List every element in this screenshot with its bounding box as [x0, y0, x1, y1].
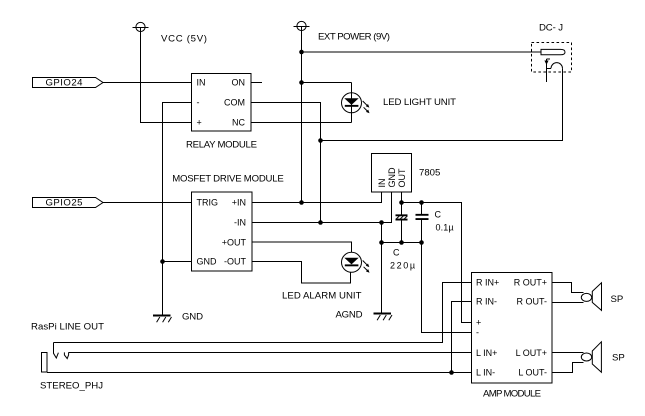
svg-text:+: + — [476, 318, 481, 328]
svg-text:GND: GND — [182, 312, 203, 323]
svg-text:L OUT-: L OUT- — [518, 368, 547, 378]
svg-text:GND: GND — [387, 167, 397, 188]
svg-text:OUT: OUT — [397, 168, 407, 188]
svg-text:+OUT: +OUT — [222, 238, 247, 248]
svg-text:NC: NC — [232, 118, 245, 128]
svg-text:LED ALARM UNIT: LED ALARM UNIT — [282, 291, 362, 302]
svg-text:-: - — [197, 98, 200, 108]
svg-text:GND: GND — [197, 257, 218, 267]
svg-text:IN: IN — [197, 78, 206, 88]
svg-text:MOSFET DRIVE MODULE: MOSFET DRIVE MODULE — [172, 174, 284, 185]
svg-text:AGND: AGND — [336, 310, 363, 321]
svg-text:SP: SP — [611, 294, 624, 305]
svg-text:L OUT+: L OUT+ — [516, 348, 547, 358]
svg-text:EXT POWER (9V): EXT POWER (9V) — [318, 32, 390, 43]
svg-text:RELAY MODULE: RELAY MODULE — [186, 140, 257, 151]
svg-text:IN: IN — [377, 179, 387, 188]
svg-text:0.1µ: 0.1µ — [436, 223, 454, 233]
svg-text:AMP MODULE: AMP MODULE — [483, 389, 541, 400]
svg-text:-: - — [476, 328, 479, 338]
svg-text:+IN: +IN — [232, 198, 246, 208]
svg-text:-IN: -IN — [234, 218, 246, 228]
svg-text:VCC (5V): VCC (5V) — [161, 34, 207, 45]
svg-text:ON: ON — [232, 78, 246, 88]
svg-text:LED LIGHT UNIT: LED LIGHT UNIT — [383, 97, 456, 108]
svg-text:7805: 7805 — [419, 168, 440, 179]
svg-text:220µ: 220µ — [390, 261, 415, 271]
svg-text:RasPi LINE OUT: RasPi LINE OUT — [31, 322, 104, 333]
svg-text:+: + — [197, 118, 202, 128]
svg-text:COM: COM — [224, 98, 245, 108]
svg-text:R OUT+: R OUT+ — [514, 278, 547, 288]
svg-text:R IN+: R IN+ — [476, 278, 499, 288]
svg-text:L IN-: L IN- — [476, 368, 495, 378]
svg-text:C: C — [435, 210, 442, 220]
svg-text:STEREO_PHJ: STEREO_PHJ — [40, 381, 103, 392]
svg-text:GPIO25: GPIO25 — [46, 198, 83, 209]
svg-text:SP: SP — [612, 353, 625, 364]
svg-text:R IN-: R IN- — [476, 297, 497, 307]
svg-text:L IN+: L IN+ — [476, 348, 497, 358]
svg-text:GPIO24: GPIO24 — [46, 78, 84, 89]
svg-text:DC- J: DC- J — [539, 23, 563, 34]
svg-text:C: C — [393, 248, 400, 258]
svg-text:-OUT: -OUT — [224, 257, 246, 267]
svg-text:TRIG: TRIG — [197, 198, 219, 208]
svg-text:R OUT-: R OUT- — [517, 297, 548, 307]
